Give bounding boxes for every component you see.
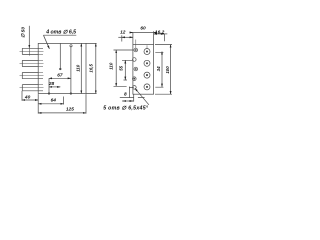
row extension lines left: [114, 50, 134, 88]
dimension 34: [161, 52, 163, 87]
svg-text:28: 28: [48, 81, 55, 87]
small hole 2: [133, 58, 137, 62]
stud 1: [20, 48, 44, 54]
small hole column tick: [135, 40, 137, 49]
svg-text:16,5: 16,5: [89, 63, 94, 72]
svg-text:4 отв ∅ 6,5: 4 отв ∅ 6,5: [45, 30, 76, 36]
svg-text:100: 100: [165, 66, 170, 74]
small hole 3: [134, 67, 138, 71]
big hole column tick: [146, 45, 148, 49]
stud 3: [20, 73, 44, 79]
svg-text:60: 60: [140, 26, 146, 32]
body outline left view: [38, 43, 86, 93]
small hole 5: [133, 86, 137, 90]
body outline right view: [133, 45, 154, 95]
dimension d50: [28, 26, 30, 48]
stud 2: [20, 60, 44, 66]
svg-text:16,2: 16,2: [155, 29, 165, 35]
dimension 12: [118, 35, 133, 41]
svg-text:64: 64: [51, 98, 57, 104]
dimension 28: [49, 86, 60, 88]
dimension 8: [122, 94, 134, 101]
row extension lines right: [155, 52, 163, 87]
dimension 64: [38, 97, 63, 105]
svg-text:34: 34: [156, 66, 161, 71]
dimension 16,2: [154, 34, 168, 41]
dimension 16,5: [86, 43, 97, 93]
big hole 1: [144, 49, 150, 55]
svg-text:12: 12: [120, 30, 126, 36]
dimension 55: [124, 60, 126, 80]
extension line right hole column: [70, 47, 72, 94]
big hole 2: [144, 60, 150, 66]
svg-text:∅ 50: ∅ 50: [21, 27, 27, 38]
dimension 125: [38, 94, 86, 114]
svg-text:55: 55: [119, 65, 124, 70]
small hole 1: [134, 48, 138, 52]
dimension 100: [155, 45, 172, 95]
svg-text:40: 40: [24, 94, 31, 100]
centerline vertical: [60, 43, 62, 69]
dimension 110 left view: [80, 43, 82, 93]
leader 5 holes: [135, 88, 149, 105]
dimension 67: [48, 78, 71, 94]
svg-text:110: 110: [75, 64, 80, 72]
svg-text:125: 125: [66, 107, 74, 113]
svg-text:5 отв ∅ 6,5х45°: 5 отв ∅ 6,5х45°: [103, 106, 149, 112]
small hole 4: [133, 77, 137, 81]
big hole 3: [144, 72, 150, 78]
big hole 4: [144, 84, 150, 90]
svg-text:110: 110: [108, 62, 113, 70]
svg-text:8: 8: [124, 91, 127, 97]
dimension 40: [22, 91, 38, 101]
stud 4: [20, 85, 44, 91]
svg-text:67: 67: [57, 73, 63, 79]
leader 4 holes: [43, 35, 76, 49]
dimension 110 right view: [115, 50, 117, 86]
dimension 60: [130, 31, 157, 44]
node circle top: [70, 45, 72, 47]
bottom-left lip: [129, 87, 131, 98]
lip line bottom: [120, 96, 145, 98]
